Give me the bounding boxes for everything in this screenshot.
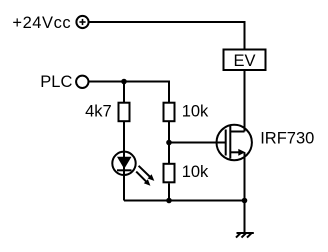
svg-text:EV: EV [233,52,255,70]
svg-text:PLC: PLC [40,73,72,91]
svg-text:10k: 10k [182,163,209,181]
svg-text:+24Vcc: +24Vcc [12,14,71,32]
svg-text:IRF730: IRF730 [260,129,314,147]
svg-text:4k7: 4k7 [85,102,112,120]
svg-text:10k: 10k [182,103,209,121]
